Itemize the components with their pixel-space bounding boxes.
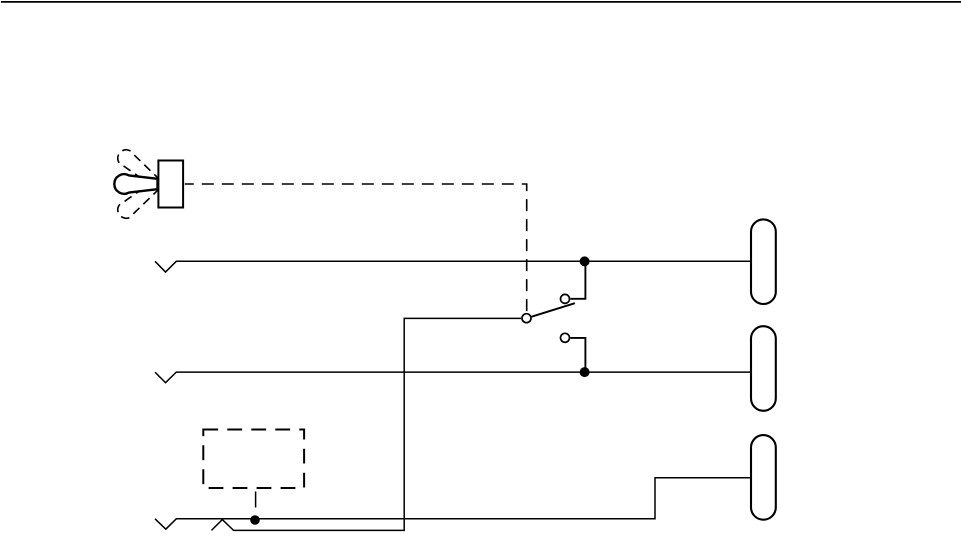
wire junction to upper contact: [570, 261, 585, 299]
switch blade: [532, 303, 575, 317]
connector terminal 3: [751, 435, 776, 520]
common pole contact: [522, 314, 531, 323]
wire stub from dashed box: [255, 492, 257, 508]
wire top with break symbol: [155, 261, 750, 272]
connector terminal 2: [751, 326, 776, 411]
toggle lever alternate position down (dashed): [114, 146, 162, 190]
wire common pole to lower bus: [212, 318, 522, 530]
toggle lever (solid): [114, 174, 157, 194]
connector terminal 1: [751, 219, 776, 304]
page top rule: [1, 1, 961, 3]
lower throw contact: [561, 333, 570, 342]
wire middle with break symbol: [155, 372, 750, 383]
toggle lever alternate position up (dashed): [114, 178, 162, 222]
dashed component box: [203, 430, 304, 489]
junction top: [580, 256, 590, 266]
junction bottom: [250, 515, 260, 525]
mechanical link (dashed): [185, 184, 527, 312]
junction middle: [580, 367, 590, 377]
toggle switch body: [158, 161, 183, 208]
wire junction to lower contact: [570, 338, 585, 372]
upper throw contact: [561, 294, 570, 303]
wire bottom with break symbol: [155, 478, 750, 529]
